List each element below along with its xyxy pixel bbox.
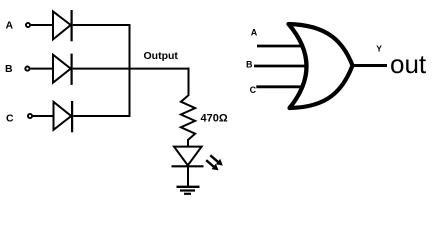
- svg-text:A: A: [251, 28, 258, 38]
- ground symbol: [177, 186, 200, 188]
- wire B to diode D2: [30, 68, 53, 70]
- diode D3 cathode bar: [71, 101, 73, 132]
- diode D2 cathode bar: [70, 54, 72, 85]
- svg-text:C: C: [250, 85, 257, 95]
- bus vertical wire: [129, 24, 131, 117]
- OR gate U1 body: [289, 24, 353, 108]
- wire resistor to LED: [187, 139, 189, 147]
- wire A to diode D1: [31, 24, 53, 26]
- LED light arrow 2: [206, 160, 215, 167]
- diode D1 triangle: [53, 11, 71, 39]
- input terminal B: [25, 67, 29, 71]
- gate input wire A: [257, 45, 304, 48]
- gate input wire B: [254, 65, 306, 68]
- svg-text:B: B: [5, 63, 13, 75]
- diode D1 cathode bar: [70, 10, 72, 41]
- wire LED to ground: [187, 166, 189, 186]
- output wire horizontal: [129, 68, 190, 70]
- wire C to diode D3: [33, 115, 54, 117]
- svg-text:470Ω: 470Ω: [201, 112, 228, 124]
- gate input wire C: [256, 85, 302, 88]
- svg-text:B: B: [246, 60, 253, 70]
- input terminal A: [26, 23, 30, 27]
- wire D2 to bus: [73, 68, 131, 70]
- diode D2 triangle: [53, 55, 71, 83]
- wire D3 to bus: [73, 115, 130, 117]
- output wire vertical to resistor: [188, 68, 190, 96]
- LED D4 triangle: [174, 147, 202, 166]
- wire D1 to bus: [73, 24, 131, 26]
- svg-text:Output: Output: [144, 50, 179, 62]
- input terminal C: [28, 114, 32, 118]
- gate output wire Y: [352, 64, 387, 67]
- diode D3 triangle: [54, 102, 72, 130]
- svg-text:C: C: [6, 112, 14, 124]
- resistor R1 zigzag: [181, 96, 195, 140]
- LED D4 cathode bar: [172, 165, 204, 167]
- svg-text:A: A: [6, 20, 14, 32]
- svg-text:out: out: [390, 49, 427, 79]
- LED light arrow 1: [210, 155, 219, 163]
- svg-text:Y: Y: [376, 44, 382, 54]
